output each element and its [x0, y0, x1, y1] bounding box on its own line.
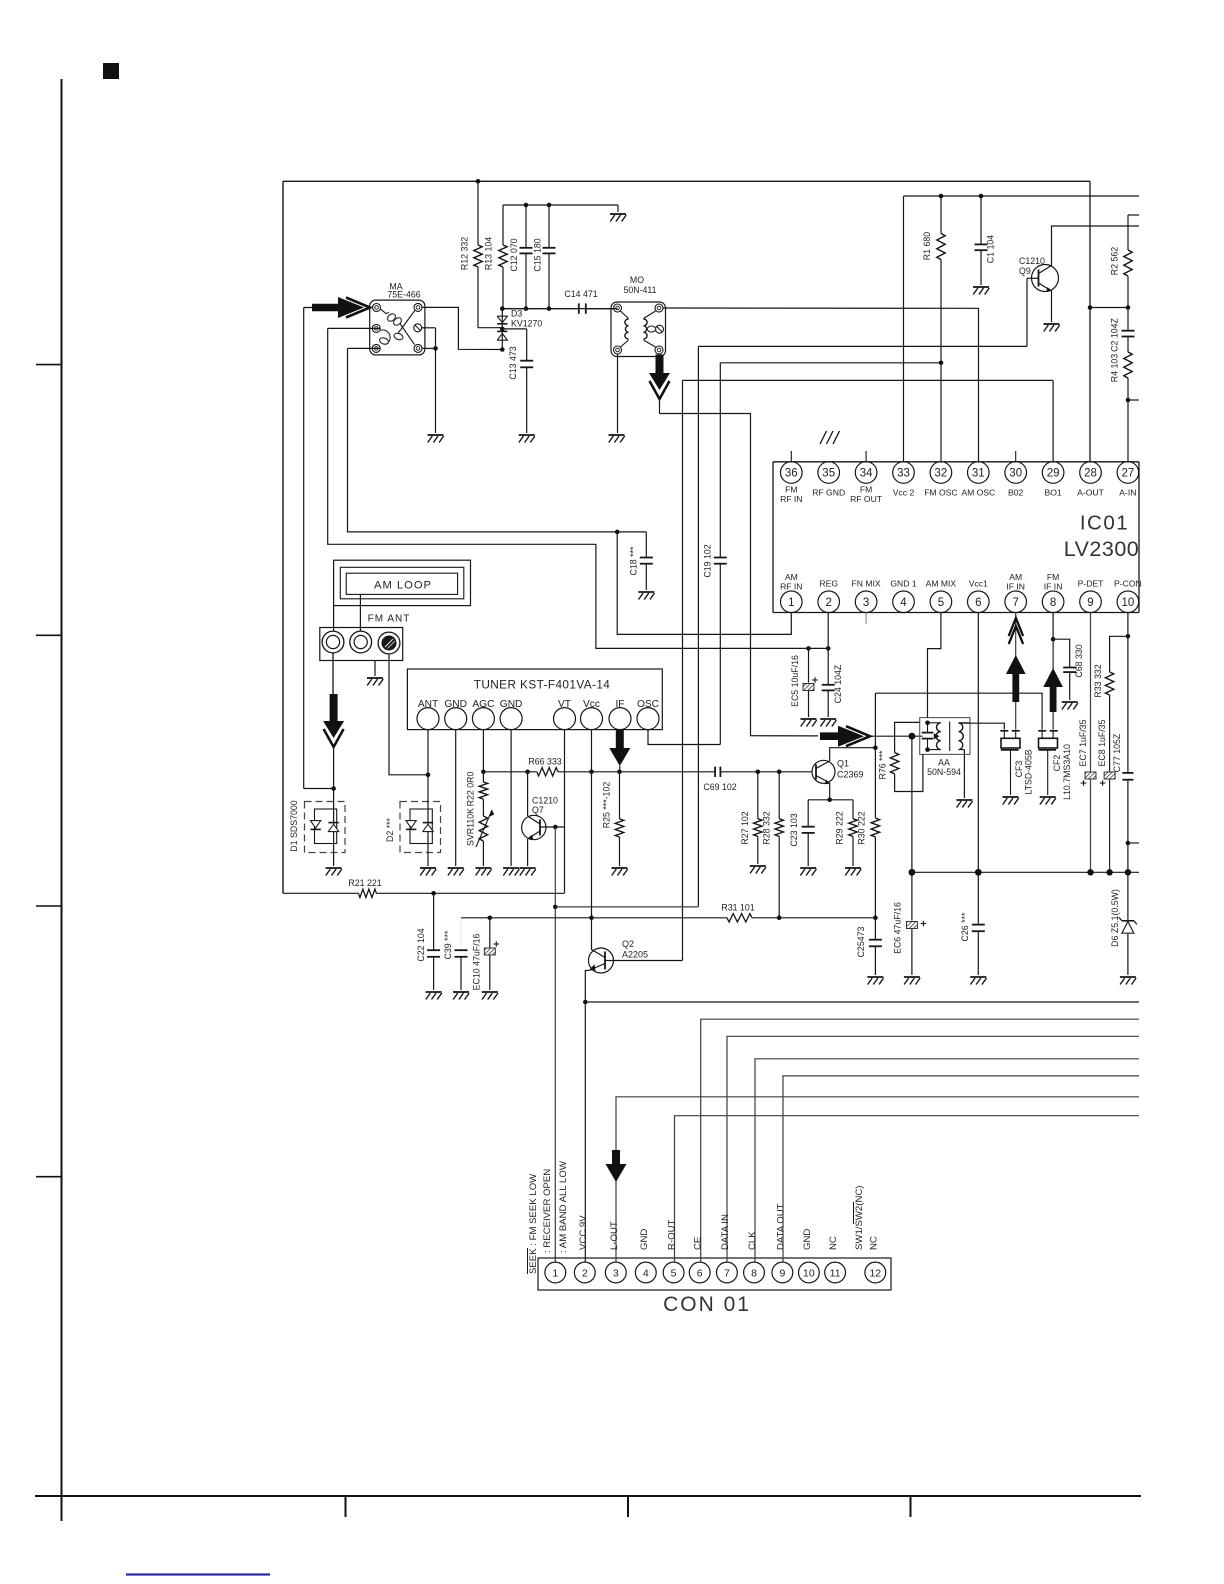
wire pin7 drop: [1015, 613, 1017, 730]
node D3 top: [500, 306, 505, 311]
node R30 bottom: [873, 916, 878, 921]
resistor R2: [1110, 215, 1133, 308]
IC01 pin 34: [850, 462, 883, 504]
svg-text:Q9: Q9: [1019, 266, 1031, 276]
R21 wire: [283, 878, 565, 898]
capacitor EC7: [1078, 719, 1096, 872]
resistor R66 333: [483, 757, 591, 777]
svg-text:Q1: Q1: [837, 759, 849, 769]
CON01 pin 7: [717, 1262, 738, 1283]
CON01 pin 8: [744, 1262, 765, 1283]
section marker square: [103, 63, 119, 79]
capacitor EC6: [893, 902, 927, 975]
ground tuner GND2: [503, 868, 519, 876]
node D1 top: [331, 786, 336, 791]
resistor R29 222: [835, 800, 858, 866]
ceramic filter CF3: [1000, 731, 1033, 795]
wire Q2 emitter top: [591, 918, 593, 950]
ground D1: [326, 868, 342, 876]
svg-text:C1210: C1210: [532, 796, 558, 806]
svg-text:A-IN: A-IN: [1119, 488, 1136, 498]
node EC5 tap: [806, 646, 811, 651]
ground D2: [420, 868, 436, 876]
node Vcc junction: [589, 916, 594, 921]
svg-text:C1210: C1210: [1019, 256, 1045, 266]
resistor R12: [460, 181, 503, 327]
wire SEEK to Q9net: [555, 906, 698, 908]
IC01 pin 10: [1114, 579, 1142, 613]
CON01 label DATA IN pin7: [720, 1214, 731, 1250]
svg-text:GND: GND: [639, 1229, 650, 1250]
svg-text:8: 8: [1050, 597, 1056, 609]
wire R31 to R30: [779, 917, 875, 919]
IC01 pin 1: [780, 572, 802, 613]
capacitor C14: [502, 289, 613, 314]
node Q1 emitter: [827, 798, 832, 803]
transformer MO 50N-411: [611, 275, 666, 357]
svg-text:D2 ***: D2 ***: [385, 817, 395, 842]
node D3 bottom: [500, 347, 505, 352]
svg-text:AM LOOP: AM LOOP: [374, 580, 432, 592]
IC01 pin 7: [1005, 572, 1027, 613]
page bottom rule: [35, 1495, 1141, 1497]
FM input arrow: [304, 297, 370, 318]
wire arrow to AA: [866, 735, 923, 737]
wire Q9 base net: [698, 346, 1027, 907]
rheostat SVR1 10K: [466, 799, 495, 866]
IC01 pin 28: [1077, 462, 1104, 498]
margin tick y906: [36, 905, 62, 907]
CON 01 label: [663, 1293, 751, 1316]
node EC8 rail: [1106, 869, 1112, 875]
resistor R1: [922, 194, 945, 363]
svg-text:C23 103: C23 103: [789, 813, 799, 846]
wire OSC to C19: [648, 730, 720, 745]
wire C14 to MO: [587, 308, 614, 310]
svg-text:5: 5: [938, 597, 944, 609]
node EC6 rail: [909, 869, 916, 876]
resistor R13: [484, 205, 508, 309]
IC01 label: [1080, 512, 1129, 535]
SEEK note col3: [558, 1160, 569, 1253]
svg-text:27: 27: [1122, 468, 1135, 480]
wire R66 rail east: [592, 771, 715, 773]
svg-text:R13 104: R13 104: [484, 237, 494, 270]
zener D6 Z5.1: [1110, 872, 1137, 975]
CON01 label NC pin11: [828, 1236, 839, 1250]
node pin8: [1051, 637, 1056, 642]
AM IF arrow up: [1006, 618, 1026, 702]
varactor D3 KV1270: [497, 309, 542, 350]
node Vcc R66 tie: [589, 770, 594, 775]
resistor R25: [602, 772, 624, 866]
ground CF3: [1003, 797, 1019, 805]
wire Q9 collector: [1052, 226, 1140, 266]
ground Q9: [1044, 324, 1060, 332]
node Vcc1 rail: [975, 869, 982, 876]
svg-text:8: 8: [751, 1267, 757, 1279]
capacitor C23 103: [789, 800, 815, 866]
ground MO: [609, 435, 625, 443]
ground top rail: [610, 205, 626, 222]
ground R27: [750, 866, 766, 874]
capacitor C77 105Z: [1112, 636, 1134, 872]
svg-text:29: 29: [1047, 468, 1060, 480]
page margin rule left: [61, 79, 63, 1521]
antenna jack block: [320, 628, 403, 661]
capacitor EC5: [790, 648, 818, 717]
wire detector rail: [912, 871, 1139, 873]
IC01 pin 6: [968, 579, 990, 613]
ground C68: [1062, 702, 1078, 710]
IC01 pin 36: [780, 462, 802, 504]
ground R29: [845, 868, 861, 876]
svg-text:2: 2: [825, 597, 831, 609]
svg-text:EC7 1uF/35: EC7 1uF/35: [1078, 719, 1088, 766]
wire pin28 drop: [1089, 181, 1091, 461]
svg-text:R28 332: R28 332: [762, 811, 772, 844]
svg-text:R21 221: R21 221: [348, 878, 381, 888]
stub pin 36: [790, 451, 792, 462]
node top rail junction: [476, 179, 481, 184]
CON01 label L-OUT pin3: [609, 1221, 620, 1250]
IC01 pin 2: [818, 579, 840, 613]
ground jack: [367, 661, 383, 686]
svg-text:A2205: A2205: [622, 950, 648, 960]
transformer MA 75E-466: [370, 282, 425, 355]
svg-text:: RECEIVER OPEN: : RECEIVER OPEN: [542, 1169, 553, 1253]
ground D6: [1120, 977, 1136, 985]
capacitor C69 102: [703, 767, 812, 792]
wire Q9 emitter: [1051, 291, 1053, 322]
node R28 tie: [777, 770, 782, 775]
svg-text:AM MIX: AM MIX: [926, 579, 957, 589]
wire pin27 drop: [1127, 400, 1129, 462]
wire A-OUT to A-IN link: [1090, 307, 1128, 309]
wire Q2 base: [614, 960, 683, 962]
CON01 label CLK pin8: [747, 1231, 758, 1250]
ground C26: [970, 977, 986, 985]
ground C25: [867, 977, 883, 985]
capacitor C39: [443, 930, 468, 990]
wire Q1 collector: [830, 748, 876, 761]
CON01 label GND pin4: [639, 1229, 650, 1250]
node AA pri top: [925, 721, 930, 726]
svg-text:VT: VT: [558, 699, 571, 710]
node EC10 tap: [488, 916, 493, 921]
svg-text:C25473: C25473: [856, 926, 866, 957]
svg-text:C13 473: C13 473: [508, 346, 518, 379]
resistor R27 102: [740, 772, 762, 864]
wire MO to AM OSC pin31: [663, 308, 979, 462]
node C12 bottom: [524, 306, 529, 311]
svg-text:GND 1: GND 1: [890, 579, 916, 589]
svg-text:10: 10: [1122, 597, 1135, 609]
svg-text:LTSD-405B: LTSD-405B: [1024, 749, 1034, 794]
svg-text:RF IN: RF IN: [780, 582, 802, 592]
CON01 label R-OUT pin5: [667, 1219, 678, 1250]
capacitor C19: [703, 363, 727, 745]
SEEK note col1: [528, 1173, 540, 1274]
wire pin32 drop: [940, 363, 942, 462]
svg-text:3: 3: [613, 1267, 619, 1279]
wire arrow to D1: [333, 744, 335, 789]
svg-text:RF GND: RF GND: [812, 488, 845, 498]
wire tuner GND1: [455, 730, 457, 866]
svg-text:FM: FM: [785, 485, 797, 495]
wire MA right pins ground: [422, 328, 436, 433]
ceramic filter CF2: [1038, 731, 1072, 800]
node VCC9V: [583, 1000, 588, 1005]
ground MA: [428, 435, 444, 443]
svg-text:IF IN: IF IN: [1044, 582, 1063, 592]
capacitor C2: [1110, 308, 1135, 353]
svg-text:NC: NC: [868, 1236, 879, 1250]
wire MO-IF route: [660, 414, 819, 736]
IC01 pin 5: [926, 579, 957, 613]
svg-text:9: 9: [779, 1267, 785, 1279]
svg-text:DATA OUT: DATA OUT: [775, 1203, 786, 1250]
svg-text:B02: B02: [1008, 488, 1024, 498]
IC01 pin 32: [924, 462, 957, 498]
svg-text:R33 332: R33 332: [1093, 664, 1103, 697]
svg-text:C24 104Z: C24 104Z: [833, 664, 843, 703]
svg-text:4: 4: [643, 1267, 649, 1279]
node D2 top: [426, 773, 431, 778]
svg-text:D6 Z5.1(0.5W): D6 Z5.1(0.5W): [1110, 889, 1120, 947]
capacitor C18: [629, 532, 653, 590]
tuner pin ANT x428: [417, 699, 439, 730]
stub pin 3: [865, 613, 867, 625]
wire pin8 drop: [1052, 613, 1054, 640]
svg-text:D3: D3: [511, 309, 522, 319]
svg-text:R25 ***-102: R25 ***-102: [602, 782, 612, 829]
wire pin2 drop: [827, 613, 829, 649]
svg-text:C18 ***: C18 ***: [629, 546, 639, 575]
wire Q7 emitter: [527, 839, 529, 866]
CON01 pin 2: [574, 1262, 595, 1283]
svg-text:LV2300: LV2300: [1064, 537, 1140, 561]
svg-text:FM OSC: FM OSC: [924, 488, 957, 498]
wire CLK line: [755, 1059, 1139, 1262]
FM IF arrow up: [1043, 639, 1063, 729]
node Q1 collector tie: [873, 745, 878, 750]
svg-text:11: 11: [830, 1267, 841, 1279]
svg-text:C2 104Z: C2 104Z: [1110, 318, 1120, 352]
capacitor C12: [509, 203, 533, 309]
svg-text:C26 ***: C26 ***: [960, 912, 970, 941]
wire jack1 down: [332, 653, 334, 694]
capacitor C68 330: [1053, 639, 1084, 700]
svg-text:Q2: Q2: [622, 939, 634, 949]
svg-text:R30 222: R30 222: [857, 811, 867, 844]
node AA pri bottom: [925, 747, 930, 752]
transistor Q7: [522, 796, 565, 840]
IC01 pin 27: [1117, 462, 1139, 498]
svg-text:75E-466: 75E-466: [387, 290, 420, 300]
svg-text:A-OUT: A-OUT: [1077, 488, 1104, 498]
node pin2 tie: [826, 646, 831, 651]
ground SVR1: [475, 868, 491, 876]
wire AM MIX jog: [928, 613, 941, 718]
stub pin 34: [865, 451, 867, 462]
ground AA: [956, 800, 972, 808]
svg-text:IC01: IC01: [1080, 512, 1129, 535]
IC01 pin 4: [890, 579, 916, 613]
CON01 label GND pin10: [802, 1229, 813, 1250]
capacitor EC10: [472, 918, 500, 991]
resistor R31 101: [721, 903, 779, 923]
transistor Q2: [589, 939, 649, 973]
svg-text:BO1: BO1: [1044, 488, 1061, 498]
IC01 pin 31: [961, 462, 995, 498]
svg-text:C39 ***: C39 ***: [443, 930, 453, 959]
svg-text:FM: FM: [860, 485, 872, 495]
capacitor C26: [960, 912, 985, 975]
svg-text:RF IN: RF IN: [780, 494, 802, 504]
svg-text:Vcc: Vcc: [583, 699, 600, 710]
node C18 tap: [615, 530, 620, 535]
svg-text:C2369: C2369: [837, 770, 864, 780]
wire R31 rail: [461, 918, 727, 950]
arrow tuner IF: [609, 730, 630, 772]
node pin10: [1126, 634, 1131, 639]
svg-text:R2 562: R2 562: [1110, 247, 1120, 275]
wire ANT drop: [427, 730, 429, 775]
resistor R33 332: [1093, 636, 1128, 771]
CON01 label VCC 9V pin2: [578, 1215, 589, 1250]
node R1 FM-OSC tie: [939, 361, 944, 366]
resistor R28 332: [762, 772, 784, 918]
node D6 rail: [1125, 869, 1131, 875]
svg-text:EC10 47uF/16: EC10 47uF/16: [472, 934, 482, 991]
svg-text:EC5 10uF/16: EC5 10uF/16: [790, 655, 800, 707]
capacitor EC8: [1097, 719, 1115, 872]
svg-text:35: 35: [822, 468, 835, 480]
svg-text:5: 5: [671, 1267, 677, 1279]
node C22 tap: [431, 891, 436, 896]
svg-text:R22 0R0: R22 0R0: [466, 772, 476, 807]
CON01 pin 1: [545, 1262, 566, 1283]
ground tuner GND1: [448, 868, 464, 876]
ground C1: [973, 287, 989, 295]
svg-text:EC6 47uF/16: EC6 47uF/16: [893, 902, 903, 954]
ground C24: [820, 719, 836, 727]
svg-text:34: 34: [860, 468, 873, 480]
svg-text:P-DET: P-DET: [1078, 579, 1105, 589]
transistor Q9: [1019, 256, 1059, 292]
node R4 bottom: [1126, 398, 1131, 403]
ground EC6: [904, 977, 920, 985]
capacitor C13: [502, 329, 535, 443]
resistor R4: [1110, 352, 1133, 400]
node SEEK branch: [553, 905, 558, 910]
svg-text:7: 7: [724, 1267, 730, 1279]
svg-text:C22 104: C22 104: [416, 928, 426, 961]
wire MA bot-left: [348, 347, 381, 349]
wire Q2 collector: [585, 971, 588, 1003]
svg-text:Q7: Q7: [532, 805, 544, 815]
svg-text:GND: GND: [500, 699, 523, 710]
svg-text:IF IN: IF IN: [1006, 582, 1025, 592]
AM LOOP antenna: [334, 560, 471, 605]
svg-text:C69 102: C69 102: [703, 782, 736, 792]
wire R-OUT line: [675, 1116, 1140, 1262]
IC01 pin 8: [1042, 572, 1064, 613]
wire tuner GND2: [510, 730, 512, 866]
svg-text:EC8 1uF/35: EC8 1uF/35: [1097, 719, 1107, 766]
margin tick y1177: [36, 1176, 62, 1178]
svg-text:TUNER KST-F401VA-14: TUNER KST-F401VA-14: [474, 678, 611, 692]
wire MA mid-left: [328, 327, 381, 329]
arrow MO IF out: [649, 355, 670, 414]
svg-text:RF OUT: RF OUT: [850, 494, 883, 504]
wire BO1 route: [683, 380, 1054, 960]
wire loop to jack1: [333, 606, 335, 632]
CON01 pin 11: [825, 1262, 846, 1283]
transistor Q1: [812, 759, 864, 785]
stub pin 30: [1015, 451, 1017, 462]
wire D1 link: [304, 308, 334, 789]
wire DATA OUT line: [783, 1076, 1139, 1262]
CON01 pin 3: [605, 1262, 626, 1283]
node R27 tie: [756, 770, 761, 775]
svg-text:50N-594: 50N-594: [927, 767, 961, 777]
diode pair D1 SDS7000: [289, 789, 345, 867]
wire VCC 9V rail: [585, 1001, 1139, 1003]
svg-text:6: 6: [697, 1267, 703, 1279]
wire P-CON stub right: [1128, 842, 1139, 844]
svg-text:AGC: AGC: [472, 699, 494, 710]
svg-text:L10.7MS3A10: L10.7MS3A10: [1062, 744, 1072, 800]
resistor R30 222: [857, 693, 880, 918]
svg-text:L-OUT: L-OUT: [609, 1221, 620, 1250]
wire loop to jack2: [359, 594, 361, 631]
bottom tick x628: [627, 1496, 629, 1517]
svg-text:36: 36: [785, 468, 798, 480]
wire Q7 collector: [527, 772, 529, 816]
CON01 label NC pin12: [868, 1236, 879, 1250]
node C15 bottom: [547, 306, 552, 311]
svg-text:AA: AA: [938, 758, 950, 768]
bottom tick x345: [345, 1496, 347, 1517]
svg-text:FN MIX: FN MIX: [852, 579, 881, 589]
CON01 label CE pin6: [693, 1237, 704, 1250]
tuner KST-F401VA-14 body: [407, 669, 662, 730]
L-OUT arrow: [606, 1150, 627, 1182]
svg-text:R-OUT: R-OUT: [667, 1219, 678, 1250]
CON01 pin 12: [865, 1262, 886, 1283]
node AGC: [481, 770, 486, 775]
svg-text:CF2: CF2: [1052, 755, 1062, 772]
wire L-OUT line: [616, 1097, 1139, 1262]
capacitor C1: [975, 194, 996, 285]
capacitor C25 473: [856, 918, 882, 975]
svg-text:C1 104: C1 104: [986, 235, 996, 263]
IC01 pin 9: [1078, 579, 1105, 613]
wire MA top-right to D3: [422, 307, 502, 349]
svg-text:R4 103: R4 103: [1110, 354, 1120, 382]
svg-text:R31 101: R31 101: [721, 903, 754, 913]
svg-text:AM OSC: AM OSC: [961, 488, 995, 498]
svg-text:C19 102: C19 102: [703, 544, 713, 577]
node AA input: [909, 733, 916, 740]
IC01 pin 30: [1005, 462, 1027, 498]
svg-text:7: 7: [1012, 597, 1018, 609]
IC01 pin 3: [852, 579, 881, 613]
svg-text:KV1270: KV1270: [511, 319, 542, 329]
diode pair D2: [385, 775, 441, 866]
